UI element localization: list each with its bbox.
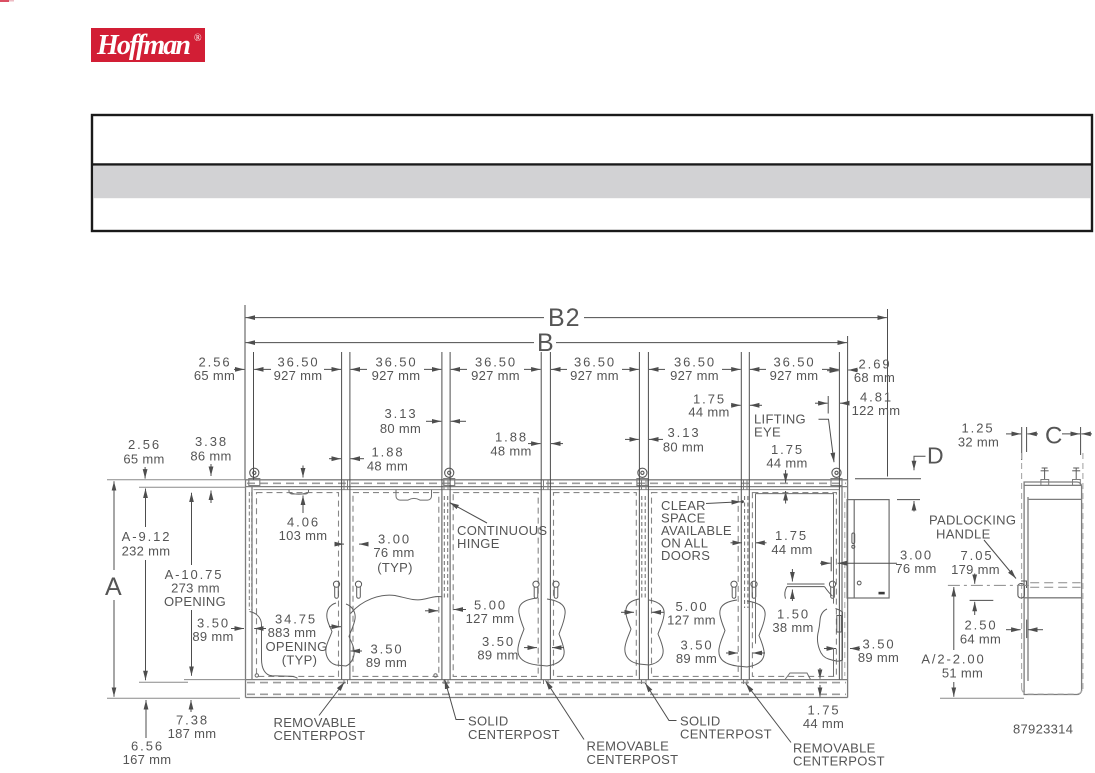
- svg-text:1.25: 1.25: [962, 421, 995, 436]
- 36.50 dim arrows: [254, 368, 839, 370]
- break cloud post5: [719, 600, 765, 667]
- svg-text:48 mm: 48 mm: [367, 459, 408, 474]
- break cloud post1: [326, 603, 355, 666]
- lifting eye 3: [637, 468, 648, 485]
- door top edges: [254, 489, 840, 491]
- svg-text:44 mm: 44 mm: [766, 456, 807, 471]
- break cloud post4: [625, 599, 664, 665]
- break cloud right edge: [817, 609, 842, 662]
- right attached handle box: [847, 500, 889, 598]
- svg-text:C: C: [1045, 423, 1063, 450]
- svg-text:927 mm: 927 mm: [274, 368, 323, 383]
- svg-text:179 mm: 179 mm: [951, 562, 1000, 577]
- handle centerline dashed: [948, 584, 1030, 586]
- svg-text:89 mm: 89 mm: [477, 648, 518, 663]
- svg-text:927 mm: 927 mm: [471, 368, 520, 383]
- svg-text:48 mm: 48 mm: [490, 444, 531, 459]
- enclosure body outline: [246, 480, 848, 698]
- hinge dashed strip post4: [642, 496, 645, 600]
- lifting eye 1: [249, 468, 260, 485]
- svg-text:51 mm: 51 mm: [942, 666, 983, 681]
- svg-text:HANDLE: HANDLE: [936, 527, 991, 542]
- side view handle: [1018, 581, 1027, 598]
- svg-text:2.50: 2.50: [965, 618, 998, 633]
- svg-text:65 mm: 65 mm: [123, 452, 164, 467]
- svg-text:D: D: [927, 443, 945, 469]
- svg-text:1.88: 1.88: [495, 430, 528, 445]
- svg-text:(TYP): (TYP): [282, 653, 317, 668]
- svg-text:89 mm: 89 mm: [858, 650, 899, 665]
- svg-text:122 mm: 122 mm: [852, 403, 901, 418]
- svg-text:CENTERPOST: CENTERPOST: [468, 727, 560, 742]
- svg-text:80 mm: 80 mm: [663, 440, 704, 455]
- svg-text:127 mm: 127 mm: [466, 611, 515, 626]
- side view dashed outline: [1022, 453, 1083, 694]
- B2 dimension: [245, 305, 888, 480]
- svg-text:44 mm: 44 mm: [803, 716, 844, 731]
- centerpost stubs through top and bottom bands: [344, 480, 747, 684]
- svg-text:EYE: EYE: [754, 424, 781, 439]
- svg-text:44 mm: 44 mm: [688, 405, 729, 420]
- hinge dashed strip post2: [444, 496, 447, 600]
- door handles row: [333, 581, 835, 598]
- svg-text:CENTERPOST: CENTERPOST: [274, 728, 366, 743]
- svg-text:1.88: 1.88: [372, 445, 405, 460]
- svg-text:103 mm: 103 mm: [279, 528, 328, 543]
- black latch mark in box: [879, 592, 885, 595]
- svg-text:76 mm: 76 mm: [895, 561, 936, 576]
- left extension lines: [107, 480, 246, 699]
- svg-text:B2: B2: [548, 304, 581, 332]
- hinge dashed strip door1 left: [249, 492, 252, 610]
- svg-text:89 mm: 89 mm: [676, 651, 717, 666]
- bottom band dashed lines: [247, 682, 846, 684]
- door6 right edge dashed: [844, 492, 846, 676]
- svg-text:Hoffman: Hoffman: [96, 30, 191, 61]
- B dimension: [246, 336, 848, 480]
- svg-text:883 mm: 883 mm: [268, 625, 317, 640]
- svg-text:927 mm: 927 mm: [372, 368, 421, 383]
- roof dashed line: [247, 482, 846, 484]
- door2 break wave: [351, 595, 442, 613]
- svg-text:89 mm: 89 mm: [366, 655, 407, 670]
- door1 top notch: [289, 490, 309, 494]
- svg-text:3.13: 3.13: [385, 406, 418, 421]
- header table: [92, 115, 1092, 231]
- svg-text:80 mm: 80 mm: [380, 421, 421, 436]
- lifting eye 2: [444, 468, 455, 485]
- svg-text:68 mm: 68 mm: [854, 370, 895, 385]
- svg-text:A/2-2.00: A/2-2.00: [921, 652, 985, 667]
- svg-text:927 mm: 927 mm: [570, 368, 619, 383]
- door6 latch bar: [785, 584, 842, 632]
- keyhole in box: [852, 533, 861, 585]
- svg-text:232 mm: 232 mm: [122, 544, 171, 559]
- break cloud post3: [518, 598, 565, 666]
- svg-text:OPENING: OPENING: [164, 594, 226, 609]
- svg-text:76 mm: 76 mm: [373, 545, 414, 560]
- svg-text:B: B: [537, 329, 555, 357]
- svg-text:CENTERPOST: CENTERPOST: [680, 727, 772, 742]
- svg-text:PADLOCKING: PADLOCKING: [929, 513, 1016, 528]
- svg-text:87923314: 87923314: [1013, 722, 1073, 737]
- svg-text:1.75: 1.75: [775, 528, 808, 543]
- 36.50 extension lines: [254, 352, 840, 490]
- svg-text:38 mm: 38 mm: [772, 620, 813, 635]
- svg-text:127 mm: 127 mm: [667, 613, 716, 628]
- door6 inner rectangle: [756, 494, 834, 680]
- svg-text:A: A: [105, 573, 123, 601]
- door1 opening corner curve: [250, 612, 298, 679]
- svg-text:89 mm: 89 mm: [192, 629, 233, 644]
- Hoffman logo: [91, 28, 205, 62]
- svg-text:187 mm: 187 mm: [168, 726, 217, 741]
- centerpost solid lines: [342, 490, 840, 680]
- svg-text:927 mm: 927 mm: [670, 368, 719, 383]
- svg-text:2.56: 2.56: [128, 437, 161, 452]
- red corner smudge: [0, 0, 9, 2]
- svg-text:927 mm: 927 mm: [770, 368, 819, 383]
- svg-text:3.38: 3.38: [195, 434, 228, 449]
- lifting eye 4: [831, 468, 842, 485]
- side view inner dashed latch lines: [1030, 583, 1080, 588]
- 36.50 labels: [274, 355, 819, 384]
- svg-text:CENTERPOST: CENTERPOST: [587, 752, 679, 767]
- door dashed outlines: [257, 493, 837, 677]
- side view body: [1024, 482, 1082, 695]
- svg-text:DOORS: DOORS: [661, 548, 710, 563]
- hinge dashed strip door6 left: [745, 496, 748, 608]
- door2 top cutout: [396, 490, 432, 501]
- svg-text:64 mm: 64 mm: [960, 632, 1001, 647]
- svg-text:®: ®: [194, 33, 202, 44]
- svg-text:32 mm: 32 mm: [958, 435, 999, 450]
- svg-text:65 mm: 65 mm: [194, 368, 235, 383]
- svg-text:3.13: 3.13: [668, 425, 701, 440]
- side view top bolts: [1041, 468, 1081, 486]
- svg-text:86 mm: 86 mm: [190, 449, 231, 464]
- svg-text:CENTERPOST: CENTERPOST: [793, 754, 885, 769]
- svg-text:(TYP): (TYP): [377, 560, 412, 575]
- svg-text:167 mm: 167 mm: [123, 752, 172, 767]
- side bottom extension line: [940, 697, 1024, 699]
- svg-text:HINGE: HINGE: [457, 536, 500, 551]
- svg-text:A-9.12: A-9.12: [122, 529, 172, 544]
- svg-text:7.05: 7.05: [961, 548, 994, 563]
- svg-text:44 mm: 44 mm: [771, 542, 812, 557]
